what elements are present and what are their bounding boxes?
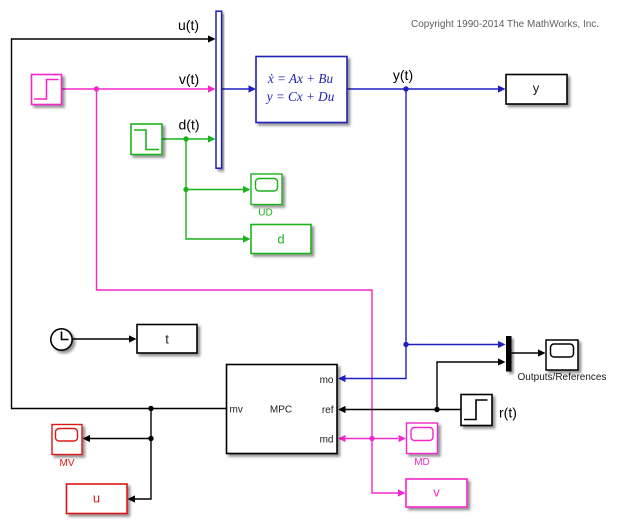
svg-text:v: v (433, 484, 440, 499)
svg-text:u: u (93, 490, 100, 505)
svg-text:MV: MV (60, 458, 75, 469)
svg-text:Outputs/References: Outputs/References (518, 372, 607, 383)
svg-text:u(t): u(t) (178, 17, 199, 33)
svg-text:d: d (277, 232, 284, 247)
svg-text:Copyright 1990-2014 The MathWo: Copyright 1990-2014 The MathWorks, Inc. (411, 19, 599, 30)
svg-text:mo: mo (320, 375, 334, 386)
svg-text:ẋ = Ax + Bu: ẋ = Ax + Bu (267, 71, 334, 86)
svg-text:d(t): d(t) (179, 117, 200, 133)
svg-text:r(t): r(t) (499, 405, 517, 421)
svg-text:y: y (533, 81, 540, 96)
svg-text:UD: UD (258, 208, 272, 219)
svg-text:MPC: MPC (270, 405, 292, 416)
svg-text:y = Cx + Du: y = Cx + Du (265, 89, 335, 104)
svg-text:t: t (165, 332, 169, 347)
svg-text:v(t): v(t) (179, 71, 199, 87)
svg-text:md: md (320, 435, 334, 446)
svg-text:ref: ref (322, 405, 334, 416)
svg-text:MD: MD (414, 457, 430, 468)
svg-text:mv: mv (230, 405, 243, 416)
svg-text:y(t): y(t) (393, 67, 413, 83)
